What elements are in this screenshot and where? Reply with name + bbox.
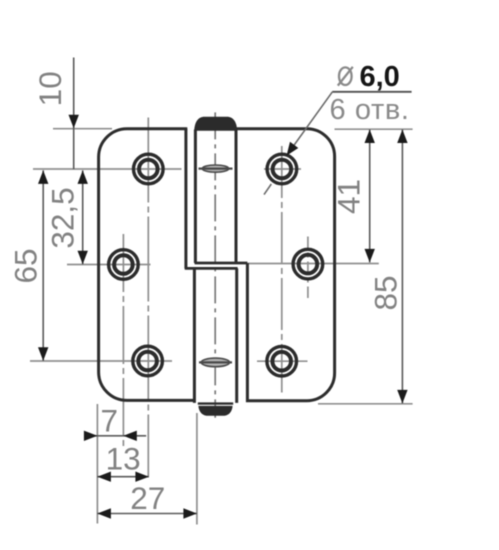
step line between top knuckle and right leaf <box>195 262 248 265</box>
screw hole left top <box>134 154 164 184</box>
svg-text:65: 65 <box>8 248 44 283</box>
dimension 41 line <box>369 130 371 263</box>
dimension 85 arrows <box>397 130 407 144</box>
horizontal crosshair left top hole <box>33 168 182 170</box>
right leaf plate outline <box>236 129 335 401</box>
extension line top edge right <box>335 128 413 130</box>
svg-text:13: 13 <box>106 441 141 477</box>
top collar equator line <box>199 167 233 169</box>
dimension 32,5 line <box>82 170 84 264</box>
left leaf plate outline <box>99 129 195 401</box>
dimension 41 arrows <box>365 130 375 144</box>
bottom knuckle top edge <box>185 267 238 270</box>
dimension 7 line <box>85 435 146 437</box>
screw hole right bottom <box>267 346 297 376</box>
extension line top edge left <box>53 128 112 130</box>
centerline through right middle hole <box>307 237 309 299</box>
pin axis centerline <box>214 112 216 417</box>
leader diagonal line <box>289 92 333 153</box>
svg-text:32,5: 32,5 <box>45 187 81 248</box>
leader diagonal stub below hole <box>264 184 271 195</box>
dimension 32,5 arrows <box>78 170 88 184</box>
svg-text:6 отв.: 6 отв. <box>330 94 410 126</box>
horizontal crosshair left middle hole <box>67 264 151 266</box>
svg-text:85: 85 <box>368 275 404 310</box>
dimension 27 line <box>97 513 196 515</box>
leader arrow <box>287 142 299 156</box>
top knuckle right edge <box>235 129 238 263</box>
dimension 85 line <box>401 130 403 404</box>
top pin cap dome <box>194 117 237 131</box>
bottom knuckle left edge <box>193 268 196 403</box>
bottom knuckle collar ellipse <box>201 358 229 367</box>
horizontal crosshair right top hole <box>264 168 301 170</box>
bottom knuckle right edge <box>235 268 238 403</box>
top knuckle left edge <box>194 130 197 264</box>
svg-text:27: 27 <box>130 480 165 516</box>
top knuckle collar ellipse <box>202 165 228 172</box>
diameter symbol <box>338 67 353 86</box>
extension line left plate edge down <box>96 404 98 524</box>
dimension 65 arrows <box>38 170 48 184</box>
extension line bottom edge right <box>318 403 413 405</box>
dimension 65 line <box>42 170 44 360</box>
dimension 13 arrows <box>97 472 111 482</box>
centerline through left top/bottom holes <box>147 118 149 477</box>
dimension 27 arrows <box>97 508 111 518</box>
screw hole right middle <box>293 249 323 279</box>
svg-text:7: 7 <box>101 403 119 439</box>
screw hole left bottom <box>133 346 163 376</box>
bottom pin cap dome <box>198 406 232 416</box>
horizontal crosshair right bottom hole <box>257 360 308 362</box>
dimension 7 arrows outside <box>84 431 98 441</box>
screw hole right top <box>267 154 297 184</box>
bottom collar equator line <box>199 361 232 363</box>
dimension 10 line <box>73 58 75 170</box>
svg-text:6,0: 6,0 <box>360 61 400 93</box>
centerline through left middle hole <box>122 234 124 447</box>
dimension 10 arrow <box>69 115 79 129</box>
left leaf right edge <box>184 129 187 269</box>
dimension 13 line <box>97 476 148 478</box>
svg-text:10: 10 <box>32 71 68 106</box>
horizontal crosshair left bottom hole <box>30 360 172 362</box>
svg-text:41: 41 <box>331 179 367 214</box>
screw hole left middle <box>109 250 139 280</box>
extension line right plate edge down <box>196 413 198 525</box>
bottom pin cup line <box>198 402 233 404</box>
centerline through right top/bottom holes <box>281 146 283 393</box>
leader shelf line under diameter label <box>332 91 411 93</box>
horizontal crosshair right middle hole extending to 41 dimension <box>248 263 379 265</box>
